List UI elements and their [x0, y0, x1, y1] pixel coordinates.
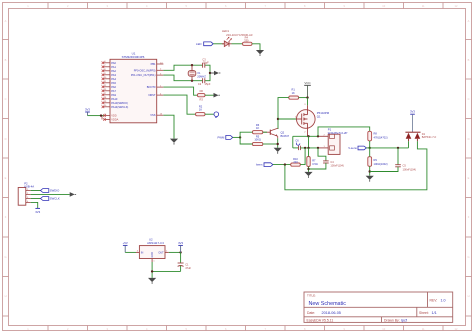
mcu U1 STM32F030F4P6 — [102, 51, 164, 122]
wire PF1 to crystal bottom rail — [163, 75, 202, 81]
svg-text:PA3: PA3 — [111, 73, 116, 77]
svg-text:3V3: 3V3 — [178, 241, 183, 245]
capacitor C5 100nF — [370, 148, 416, 172]
wire R3 to ground — [205, 94, 214, 96]
wire R7 top — [308, 148, 310, 157]
svg-text:PF1-OSC_OUT(PF1): PF1-OSC_OUT(PF1) — [131, 73, 156, 77]
wire PWM to R6 — [240, 132, 252, 137]
connector P2 KXB-4A — [18, 181, 34, 205]
wire D1 right anode to bottom loop — [285, 141, 427, 190]
svg-text:100nF(104): 100nF(104) — [403, 167, 417, 171]
junction V-sens node — [369, 147, 371, 149]
svg-text:WJ126V-5.0-2P: WJ126V-5.0-2P — [328, 131, 348, 135]
svg-text:100nF(104): 100nF(104) — [330, 163, 344, 167]
svg-text:E: E — [468, 176, 470, 180]
svg-text:C1: C1 — [185, 262, 189, 266]
svg-text:15pF: 15pF — [205, 82, 211, 86]
svg-text:IN: IN — [141, 251, 144, 254]
ground (P2, right arrow) — [70, 192, 76, 197]
resistor R7 0.5Ω — [307, 157, 318, 167]
wire R6 to Q2 base — [263, 131, 267, 133]
svg-text:EasyEDA V5.5.11: EasyEDA V5.5.11 — [307, 318, 334, 322]
svg-text:Date:: Date: — [307, 311, 315, 315]
svg-text:R8: R8 — [374, 132, 378, 136]
junction emitter/R5 — [277, 143, 279, 145]
resistor R2 1K — [196, 104, 206, 115]
net flag SWCLK — [41, 197, 60, 201]
svg-text:PA1: PA1 — [111, 65, 116, 69]
svg-text:SWCLK: SWCLK — [50, 197, 60, 201]
wire Q1 source row A — [293, 135, 319, 137]
svg-text:SWDIO: SWDIO — [50, 189, 60, 193]
svg-text:OUT: OUT — [158, 251, 164, 254]
wire U2 OUT to 3V3 — [169, 251, 181, 253]
diode D1 BAT54C-7-F — [405, 132, 436, 142]
svg-text:1K: 1K — [292, 91, 295, 95]
svg-text:3V3: 3V3 — [85, 108, 90, 112]
svg-text:PA13(SWDIO): PA13(SWDIO) — [111, 101, 128, 105]
junction PWM node — [239, 136, 241, 138]
wire R1 left / gate column — [278, 98, 289, 129]
svg-text:10KΩ: 10KΩ — [254, 138, 261, 142]
svg-text:STM32F030F4P6: STM32F030F4P6 — [122, 55, 145, 59]
svg-text:V-sens: V-sens — [348, 146, 357, 150]
svg-text:B: B — [468, 58, 470, 62]
svg-text:H: H — [5, 294, 7, 298]
svg-text:C4: C4 — [330, 160, 334, 164]
power flag 3V3 (U2 out) — [178, 241, 183, 252]
resistor R1 1K — [289, 88, 299, 100]
ground (LED circuit) — [256, 50, 264, 56]
svg-text:1.0: 1.0 — [441, 298, 446, 302]
wire R8 bottom to V-sens node — [369, 141, 371, 148]
svg-text:Sheet:: Sheet: — [419, 311, 429, 315]
svg-text:BOOT0: BOOT0 — [147, 85, 156, 89]
svg-text:47KΩ(4702): 47KΩ(4702) — [374, 135, 388, 139]
svg-text:47uF: 47uF — [185, 266, 191, 270]
transistor Q2 BC847 — [263, 128, 290, 138]
junction Isens node — [284, 163, 286, 165]
svg-text:1/1: 1/1 — [432, 311, 437, 315]
wire R4 to ground — [252, 44, 260, 50]
svg-text:BAT54C-7-F: BAT54C-7-F — [422, 135, 437, 139]
svg-text:B: B — [5, 58, 7, 62]
capacitor C4 100nF — [309, 148, 344, 169]
svg-text:PWM: PWM — [217, 136, 225, 140]
net flag V-sens — [348, 146, 369, 150]
ground (U2) — [148, 278, 156, 284]
wire LED1 to R4 — [232, 43, 243, 45]
svg-text:KXB-4A: KXB-4A — [24, 184, 34, 188]
wire NRST to R2 — [163, 95, 195, 114]
junction row A / R8 tap — [317, 135, 319, 137]
junction R9/C5 gnd — [369, 170, 371, 172]
junction crystal bottom — [191, 80, 193, 82]
wire P2 pin3 to SWCLK — [31, 198, 41, 200]
net flag LED — [196, 42, 213, 46]
junction VCC node — [306, 96, 308, 98]
resistor R4 330 — [243, 35, 253, 45]
wire U2 GND down — [151, 262, 153, 278]
wire R1 right to VCC node — [299, 97, 308, 99]
svg-text:10KΩ(1002): 10KΩ(1002) — [374, 162, 388, 166]
wire VCC node to Q1 drain — [307, 98, 309, 106]
resistor R3 0R — [197, 89, 205, 101]
wire row B left — [293, 147, 299, 149]
transistor Q1 P5102PM — [295, 104, 330, 137]
wire +5V to U2 IN — [125, 251, 136, 253]
wire C1 bottom to GND pin — [152, 270, 181, 272]
svg-text:3V3: 3V3 — [410, 109, 415, 113]
junction C4 tap — [317, 147, 319, 149]
wire C6 left loop — [292, 136, 294, 148]
svg-text:15pF: 15pF — [203, 60, 209, 64]
wire V-sens row to D1 — [370, 147, 409, 149]
svg-text:A: A — [468, 19, 470, 23]
wire PWM to split node — [233, 136, 240, 138]
svg-text:D1: D1 — [422, 132, 426, 136]
regulator U2 AMS1117-3.3 — [136, 238, 169, 263]
svg-text:TITLE:: TITLE: — [307, 293, 316, 297]
resistor R9 10KΩ — [368, 157, 388, 167]
svg-text:PA7: PA7 — [111, 89, 116, 93]
svg-text:PA0: PA0 — [111, 61, 116, 65]
wire R9 bottom — [369, 166, 371, 175]
junction gate node — [277, 118, 279, 120]
wire crystal right rail — [205, 65, 210, 81]
power flag 3V3 (P2) — [35, 208, 40, 213]
svg-text:H: H — [468, 294, 470, 298]
junction VDD node — [100, 114, 102, 116]
svg-text:VDDA: VDDA — [111, 118, 118, 122]
net flag SWDIO — [41, 189, 61, 193]
svg-text:330: 330 — [244, 39, 249, 43]
svg-text:VCC: VCC — [304, 81, 311, 85]
capacitor C2 15pF — [198, 78, 211, 86]
wire R10 to row B — [300, 148, 305, 165]
svg-text:A: A — [5, 19, 7, 23]
svg-text:PA5: PA5 — [111, 81, 116, 85]
ground (Q2 emitter) — [274, 148, 282, 154]
svg-text:D: D — [468, 137, 470, 141]
svg-text:lpcf: lpcf — [401, 318, 408, 322]
resistor R5 10KΩ — [252, 134, 262, 145]
svg-text:0.5Ω: 0.5Ω — [312, 162, 318, 166]
wire R5 to emitter node — [263, 143, 278, 145]
ground (R9) — [366, 176, 374, 182]
svg-text:PA10: PA10 — [111, 97, 118, 101]
netport (NRST circle) — [214, 112, 219, 118]
junction R7 tap — [307, 147, 309, 149]
ground (R3, right arrow) — [214, 93, 220, 98]
junction R10 tap — [304, 147, 306, 149]
svg-text:C6: C6 — [295, 139, 299, 143]
svg-text:R3: R3 — [200, 98, 204, 102]
capacitor C6 — [295, 139, 300, 151]
wire VSS to ground — [163, 115, 174, 138]
svg-text:0R: 0R — [200, 89, 203, 93]
resistor R8 47KΩ — [368, 131, 388, 141]
svg-text:Q1: Q1 — [317, 115, 321, 119]
svg-text:NRST: NRST — [148, 93, 155, 97]
svg-text:1K: 1K — [256, 126, 259, 130]
wire P2 pin2 to ground — [31, 193, 70, 195]
svg-text:220: 220 — [293, 160, 298, 164]
wire Q2 emitter down — [277, 138, 279, 148]
svg-text:PB1: PB1 — [151, 62, 156, 66]
svg-text:New Schematic: New Schematic — [309, 301, 347, 307]
svg-text:PA14(SWCLK): PA14(SWCLK) — [111, 105, 128, 109]
svg-text:Isens: Isens — [256, 163, 263, 167]
junction OUT node — [179, 251, 181, 253]
wire R7 bottom — [308, 167, 310, 172]
LED1 204-10UYC/S530-A3 — [222, 29, 253, 46]
ground (VSS) — [170, 139, 178, 145]
wire PF0 to crystal top rail — [163, 65, 202, 70]
wire V-sens node to R9 — [369, 148, 371, 157]
svg-text:C2: C2 — [198, 82, 202, 86]
wire PWM to R5 — [240, 137, 252, 144]
wire D1 left anode to V-sens row — [408, 141, 410, 148]
junction C5 tap — [397, 147, 399, 149]
svg-text:R9: R9 — [374, 158, 378, 162]
svg-text:D: D — [5, 137, 7, 141]
svg-text:3V3: 3V3 — [35, 210, 40, 214]
junction crystal gnd — [209, 72, 211, 74]
wire R8 rail — [318, 127, 370, 136]
junction U2 gnd — [151, 270, 153, 272]
svg-text:1K: 1K — [199, 108, 202, 112]
svg-text:G: G — [4, 255, 6, 259]
net flag Isens — [256, 163, 273, 167]
svg-text:PA9: PA9 — [111, 93, 116, 97]
resistor R10 220 — [291, 157, 301, 166]
svg-text:204-10UYC/S530-A3: 204-10UYC/S530-A3 — [226, 33, 253, 37]
svg-text:AMS1117-3.3: AMS1117-3.3 — [147, 241, 164, 245]
power flag +5V — [123, 241, 128, 252]
net flag PWM — [217, 136, 232, 140]
svg-text:BC847: BC847 — [281, 134, 290, 138]
svg-text:2018-06-05: 2018-06-05 — [322, 311, 341, 315]
svg-text:PA2: PA2 — [111, 69, 116, 73]
power flag 3V3 (D1 clamp) — [410, 109, 415, 132]
resistor R6 1K — [252, 123, 262, 134]
junction crystal top — [191, 64, 193, 66]
wire P2 pin1 to SWDIO — [31, 190, 41, 192]
svg-text:C5: C5 — [403, 164, 407, 168]
svg-text:VSS: VSS — [150, 113, 155, 117]
wire row B to P1 pin1 — [300, 147, 318, 149]
svg-text:GND: GND — [151, 252, 154, 258]
crystal X1 20MHZ — [188, 65, 206, 81]
svg-text:G: G — [467, 255, 469, 259]
power flag VCC — [304, 81, 311, 98]
svg-text:PA4: PA4 — [111, 77, 116, 81]
ground (crystal, right arrow) — [210, 71, 220, 76]
wire BOOT0 to R3 — [163, 87, 197, 95]
svg-text:PF0-OSC_IN(PF0): PF0-OSC_IN(PF0) — [134, 68, 156, 72]
svg-text:C: C — [468, 97, 470, 101]
wire Isens to R10 — [273, 164, 291, 166]
terminal P1 WJ126V-5.0-2P — [319, 127, 348, 154]
wire gate node to Q1 gate — [278, 118, 297, 120]
junction R7/C4 gnd — [307, 168, 309, 170]
svg-text:20MHZ: 20MHZ — [197, 75, 206, 79]
wire P2 pin4 to 3V3 — [31, 202, 38, 208]
wire LED flag to LED1 — [213, 43, 224, 45]
svg-text:+5V: +5V — [123, 241, 128, 245]
wire source vertical to row B — [308, 136, 310, 148]
svg-text:PA6: PA6 — [111, 85, 116, 89]
svg-text:E: E — [5, 176, 7, 180]
svg-text:REV:: REV: — [430, 298, 438, 302]
svg-text:VDD: VDD — [111, 114, 117, 118]
svg-text:Drawn By:: Drawn By: — [384, 318, 400, 322]
wire R2 to port — [205, 113, 214, 115]
svg-text:C: C — [5, 97, 7, 101]
svg-text:X1: X1 — [197, 71, 201, 75]
title block — [304, 292, 453, 322]
capacitor C3 15pF — [202, 57, 209, 67]
junction source node — [307, 135, 309, 137]
capacitor C1 47uF — [178, 252, 192, 271]
wire 3V3 to VDD — [88, 115, 104, 117]
power flag 3V3 (MCU VDD) — [85, 108, 90, 116]
svg-text:LED: LED — [196, 42, 201, 46]
ground (R7/C4) — [304, 172, 312, 178]
